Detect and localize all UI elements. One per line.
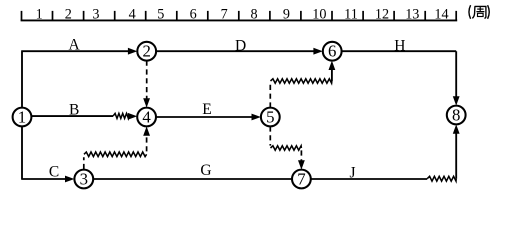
svg-text:8: 8 <box>251 7 258 23</box>
svg-text:8: 8 <box>452 106 460 125</box>
svg-text:H: H <box>394 37 405 54</box>
svg-text:14: 14 <box>434 7 448 23</box>
svg-text:10: 10 <box>312 7 326 23</box>
svg-text:3: 3 <box>92 7 99 23</box>
svg-text:J: J <box>349 164 355 181</box>
svg-text:2: 2 <box>65 7 72 23</box>
svg-text:5: 5 <box>157 7 164 23</box>
svg-text:2: 2 <box>143 42 151 61</box>
svg-text:13: 13 <box>405 7 419 23</box>
svg-text:A: A <box>68 37 80 54</box>
svg-text:1: 1 <box>18 108 26 127</box>
svg-text:G: G <box>200 162 211 179</box>
svg-text:1: 1 <box>36 7 43 23</box>
svg-text:11: 11 <box>344 7 358 23</box>
svg-text:E: E <box>202 101 211 118</box>
svg-text:C: C <box>49 164 59 181</box>
svg-text:5: 5 <box>266 108 274 127</box>
svg-text:3: 3 <box>80 170 88 189</box>
svg-text:D: D <box>235 37 246 54</box>
svg-text:12: 12 <box>375 7 389 23</box>
svg-text:4: 4 <box>142 108 151 127</box>
svg-text:4: 4 <box>129 7 136 23</box>
svg-text:6: 6 <box>190 7 197 23</box>
svg-text:9: 9 <box>283 7 290 23</box>
svg-text:7: 7 <box>221 7 228 23</box>
svg-text:6: 6 <box>328 42 336 61</box>
svg-text:7: 7 <box>297 170 305 189</box>
svg-text:B: B <box>69 101 79 118</box>
